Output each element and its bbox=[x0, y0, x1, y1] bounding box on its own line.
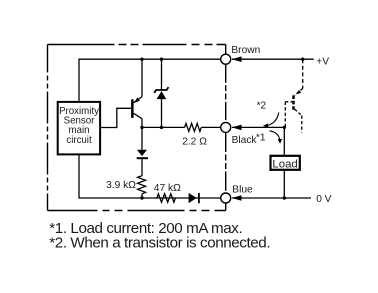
svg-text:Brown: Brown bbox=[231, 45, 260, 56]
resistor R3 47 kilohm (horizontal on 0V rail) bbox=[154, 183, 181, 202]
load box bbox=[271, 156, 300, 171]
svg-text:Load: Load bbox=[272, 158, 297, 170]
wire Q1 emitter to top rail bbox=[141, 59, 143, 96]
diode D2 (horizontal, on 0V rail) bbox=[189, 193, 200, 203]
svg-text:47 kΩ: 47 kΩ bbox=[154, 183, 181, 194]
wire Q1 collector to output node bbox=[141, 119, 143, 128]
resistor R2 3.9 kilohm (vertical) bbox=[106, 176, 146, 198]
terminal Black bbox=[221, 122, 266, 146]
wire from box bottom to 0V rail bbox=[78, 155, 80, 198]
wire 2.2 ohm to Black terminal bbox=[201, 126, 220, 128]
svg-text:*2. When a transistor is conne: *2. When a transistor is connected. bbox=[49, 235, 270, 252]
diode D1 (vertical) bbox=[137, 127, 148, 175]
junction dot 0V line bbox=[283, 196, 286, 199]
wire bottom rail to Blue terminal bbox=[78, 197, 220, 199]
wire load node down to Load box bbox=[283, 127, 285, 154]
curved arrow from *1 to load wire bbox=[270, 131, 283, 144]
wire output node line to 2.2 ohm resistor bbox=[142, 126, 185, 128]
external transistor Q2 (dashed) bbox=[285, 59, 302, 132]
svg-text:+V: +V bbox=[316, 56, 329, 67]
wire Load box to 0V line bbox=[283, 170, 285, 198]
enclosure border right edge segment below Blue terminal bbox=[225, 203, 227, 210]
+V supply line with arrow into Brown bbox=[232, 56, 329, 67]
svg-text:0 V: 0 V bbox=[316, 194, 331, 205]
enclosure dash-dot border left edge bbox=[47, 45, 49, 211]
enclosure dash-dot border bottom edge bbox=[48, 210, 226, 212]
svg-text:circuit: circuit bbox=[66, 135, 92, 146]
transistor Q1 (PNP) bbox=[131, 97, 142, 119]
resistor R1 2.2 ohm bbox=[182, 123, 207, 147]
wire Black terminal to load node with arrow bbox=[232, 125, 284, 131]
svg-text:*1: *1 bbox=[256, 132, 266, 143]
svg-text:2.2 Ω: 2.2 Ω bbox=[182, 137, 207, 148]
svg-text:Black: Black bbox=[232, 135, 258, 146]
zener diode ZD1 bbox=[154, 59, 168, 127]
base wire from box to transistor Q1 bbox=[101, 108, 131, 127]
junction dot output node at Q1 collector bbox=[140, 126, 143, 129]
junction dot 0V rail at R2 bbox=[140, 196, 143, 199]
junction dot output node at ZD1 bbox=[160, 126, 163, 129]
wire top rail to Brown terminal bbox=[78, 58, 220, 60]
svg-text:Blue: Blue bbox=[232, 185, 253, 196]
enclosure border right edge dashed segment between Brown and Black bbox=[225, 65, 227, 123]
wire from box top to +V rail bbox=[78, 59, 80, 101]
enclosure border right edge segment above Brown terminal bbox=[225, 45, 227, 55]
junction dot black line at load node bbox=[283, 126, 286, 129]
terminal Brown bbox=[221, 45, 261, 64]
junction dot top rail at ZD1 bbox=[160, 58, 163, 61]
junction dot +V line bbox=[301, 58, 304, 61]
terminal Blue bbox=[221, 185, 253, 204]
curved arrow from *2 to black wire bbox=[263, 113, 279, 128]
0V line with arrow into Blue bbox=[232, 194, 332, 205]
enclosure border right edge dashed segment between Black and Blue bbox=[225, 133, 227, 193]
enclosure dash-dot border top edge bbox=[48, 44, 226, 46]
svg-text:*2: *2 bbox=[257, 101, 267, 112]
proximity sensor main circuit box U1 bbox=[58, 102, 100, 154]
svg-text:3.9 kΩ: 3.9 kΩ bbox=[106, 180, 136, 191]
junction dot top rail at Q1 emitter bbox=[140, 58, 143, 61]
